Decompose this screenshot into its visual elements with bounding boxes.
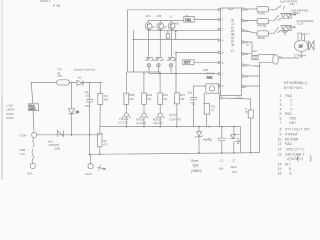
- capacitor C5: [190, 98, 196, 100]
- capacitor small below Q3: [166, 30, 169, 38]
- arrow by ACN: [98, 165, 106, 170]
- node ACL circle: [30, 163, 35, 168]
- svg-text:R3: R3: [104, 94, 108, 98]
- wire pin9 column: [219, 94, 221, 127]
- svg-text:light: light: [193, 164, 199, 168]
- wire transistor top bus: [149, 20, 184, 22]
- svg-text:): ): [310, 156, 312, 163]
- wire motor stubs: [297, 33, 305, 40]
- svg-text:13: 13: [245, 40, 249, 44]
- svg-text:10uF: 10uF: [230, 165, 237, 169]
- svg-text:C3: C3: [85, 90, 89, 94]
- wire inner vertical: [133, 30, 135, 72]
- svg-text:+(2A????): +(2A????): [169, 117, 181, 121]
- motor M1: [295, 40, 309, 51]
- relay box B1: [257, 7, 269, 12]
- svg-text:15: 15: [278, 167, 282, 171]
- svg-text:(HI): (HI): [290, 2, 295, 6]
- svg-text:15V: 15V: [232, 170, 237, 174]
- wire R472 bottom: [99, 147, 101, 155]
- transistor Q1: [145, 23, 154, 30]
- svg-text:211: 211: [163, 97, 168, 101]
- svg-text:1/R2: 1/R2: [289, 117, 296, 121]
- scan edge line left: [1, 0, 3, 180]
- zener pair Z1: [145, 58, 154, 68]
- svg-text:1P1: 1P1: [146, 14, 151, 18]
- wire C1 bottom lead: [221, 141, 223, 153]
- svg-text:+(2.1??): +(2.1??): [118, 121, 128, 125]
- svg-text:PA (B): PA (B): [258, 13, 265, 16]
- svg-text:D9: D9: [103, 139, 107, 143]
- wire bus1 com: [37, 134, 102, 136]
- svg-text:(MID): (MID): [293, 11, 300, 15]
- svg-text:P(Comr: P(Comr: [119, 117, 128, 121]
- svg-text:(?): (?): [211, 108, 214, 112]
- svg-text:1L: 1L: [169, 14, 173, 18]
- svg-text:N1: N1: [78, 76, 82, 80]
- relay box B3: [257, 31, 269, 36]
- svg-text:+(2A.??): +(2A.??): [152, 121, 162, 125]
- wire U2 to pin6: [194, 61, 219, 63]
- svg-text:4: 4: [280, 108, 282, 112]
- svg-text:C?M(w=): C?M(w=): [294, 54, 306, 58]
- svg-text:241: 241: [147, 97, 152, 101]
- svg-text:3: 3: [280, 103, 282, 107]
- svg-text:p?+C: p?+C: [237, 96, 243, 100]
- svg-text:(LO): (LO): [298, 22, 304, 26]
- wire ZD1 bottom lead: [198, 137, 200, 153]
- svg-text:104: 104: [218, 167, 223, 171]
- wire pin14 to box3: [244, 31, 258, 34]
- resistor R col4: [175, 93, 180, 104]
- regulator pill: [273, 55, 278, 64]
- wire Q3 down: [171, 29, 173, 56]
- wire R2b to bus: [206, 114, 208, 127]
- wire regulator bottom loop: [260, 61, 274, 63]
- wire col2 vertical: [143, 74, 145, 93]
- svg-text:RX1: RX1: [207, 76, 213, 80]
- transistor Q2: [157, 23, 166, 30]
- IC U3 body: [221, 8, 242, 96]
- wire R col1 to LED1: [125, 104, 127, 113]
- wire R3 to R472: [99, 104, 102, 133]
- svg-text:R: R: [245, 107, 247, 111]
- wire pin12 5V: [244, 53, 252, 55]
- svg-text:9: 9: [280, 133, 282, 137]
- wire to pin7: [149, 73, 219, 75]
- svg-text:1?L/BRA: 1?L/BRA: [250, 65, 260, 68]
- svg-text:R77: R77: [184, 61, 190, 65]
- svg-text:1P5: 1P5: [157, 14, 162, 18]
- wire motor feed: [278, 57, 299, 59]
- wire to pin4: [134, 39, 219, 41]
- svg-text:2: 2: [280, 98, 282, 102]
- svg-text:0: 0: [291, 108, 293, 112]
- wire pin10R: [244, 75, 260, 77]
- svg-text:RC7: RC7: [180, 93, 186, 97]
- svg-text:R0B: R0B: [129, 93, 134, 97]
- wire pin16 to box1: [244, 8, 258, 10]
- wire LED3 to bus: [159, 117, 161, 126]
- svg-text:(4M): (4M): [203, 68, 209, 72]
- svg-text:R1B: R1B: [147, 93, 152, 97]
- svg-text:6: 6: [289, 167, 291, 171]
- wire right rail: [259, 62, 261, 153]
- resistor R2b: [204, 104, 209, 115]
- IC pin circles right: [242, 8, 244, 88]
- resistor R3: [98, 94, 103, 105]
- wire box2 to triac1: [269, 15, 279, 20]
- svg-text:5: 5: [280, 112, 282, 116]
- svg-text:P?0/INT: P?0/INT: [285, 133, 299, 137]
- svg-text:10: 10: [245, 74, 249, 78]
- svg-text:M1/TMR: M1/TMR: [285, 137, 299, 141]
- wire pin9R: [244, 85, 260, 87]
- fusible resistor pill: [57, 80, 70, 85]
- transistor Q3: [168, 23, 175, 30]
- wire row to pin3: [149, 29, 219, 31]
- svg-text:45V: 45V: [175, 21, 180, 25]
- IC pin numbers right: [245, 7, 249, 89]
- svg-text:OSC1(AAL?: OSC1(AAL?: [285, 153, 304, 157]
- svg-text:M.7: M.7: [285, 163, 291, 167]
- svg-text:V?? U?y I?. IN?: V?? U?y I?. IN?: [285, 128, 310, 132]
- wire R col3 to LED3: [159, 104, 161, 113]
- wire box bottom: [128, 71, 161, 73]
- svg-text:HT46R05A-1: HT46R05A-1: [284, 80, 308, 85]
- wire motor bottom stub: [300, 51, 302, 58]
- svg-text:PB2: PB2: [285, 112, 292, 116]
- svg-text:821: 821: [104, 97, 109, 101]
- svg-text:14: 14: [245, 29, 249, 33]
- svg-text:(?): (?): [245, 110, 248, 114]
- relay box B2: [257, 19, 269, 24]
- svg-text:7: 7: [280, 121, 282, 125]
- svg-text:1/10B: 1/10B: [54, 148, 61, 151]
- svg-text:1.5uF: 1.5uF: [6, 104, 13, 108]
- svg-text:River: River: [191, 159, 199, 163]
- wire U1 to pin2: [194, 19, 218, 21]
- wire pin1 top: [128, 9, 219, 11]
- svg-text:VDD (??.?.): VDD (??.?.): [286, 148, 304, 152]
- LED D2: [140, 113, 148, 118]
- wire C2a column: [193, 86, 195, 127]
- svg-text:?R: ?R: [279, 57, 282, 60]
- wire bus2 bottom: [89, 153, 259, 155]
- fan blades: [307, 40, 314, 50]
- wire stub Q3 top: [171, 21, 173, 23]
- resistor R472: [98, 133, 103, 147]
- zener pair Z2: [155, 58, 164, 68]
- svg-text:PA3: PA3: [286, 94, 292, 98]
- svg-text:Scopp& 1N(4,mv): Scopp& 1N(4,mv): [74, 67, 95, 71]
- wire cap to regulator: [258, 54, 275, 57]
- svg-text:8: 8: [280, 128, 282, 132]
- resistor R26: [248, 110, 253, 118]
- svg-text:9/AVF: 9/AVF: [6, 116, 14, 120]
- wire box3 to triac2: [269, 28, 279, 34]
- wire Q1 down: [148, 30, 150, 57]
- svg-text:2/B?: 2/B?: [289, 121, 296, 125]
- wire R3 top lead: [99, 83, 101, 94]
- node COM circle: [32, 132, 37, 137]
- wire R26 bottom: [250, 118, 252, 153]
- svg-text:16: 16: [278, 172, 282, 176]
- wire C7 top lead: [233, 127, 235, 134]
- wire C7 bottom lead: [233, 142, 235, 153]
- capacitor C1: [218, 138, 227, 141]
- wire fuse to com: [33, 111, 34, 133]
- wire bus3: [100, 127, 241, 153]
- resistor R col3: [158, 93, 163, 105]
- svg-text:HT46R05A-1: HT46R05A-1: [230, 19, 235, 53]
- wire box left edge: [127, 10, 129, 72]
- wire to pin5: [176, 52, 219, 54]
- wire ACN stub: [90, 154, 92, 163]
- svg-text:5?1kA: 5?1kA: [6, 112, 14, 116]
- svg-text:ACL: ACL: [27, 171, 33, 175]
- svg-text:472: 472: [103, 143, 108, 147]
- svg-text:C7: C7: [232, 158, 236, 162]
- wire col4 vertical: [175, 53, 177, 93]
- triac T2: [278, 25, 292, 33]
- LED D3: [156, 113, 164, 118]
- IC pin circles left: [218, 8, 220, 87]
- svg-text:45V: 45V: [85, 104, 90, 108]
- diode D2: [68, 109, 74, 114]
- svg-text:C2a: C2a: [187, 91, 192, 95]
- svg-text:16: 16: [245, 7, 249, 11]
- wire LED1 to bus: [125, 117, 127, 127]
- svg-text:NTC E: NTC E: [206, 72, 214, 76]
- svg-text:(1BB%): (1BB%): [191, 169, 202, 173]
- wire down to fuse: [31, 83, 33, 104]
- svg-text:10: 10: [278, 137, 282, 141]
- svg-text:70a: 70a: [190, 101, 195, 105]
- node pin9 below IC: [220, 97, 222, 99]
- svg-text:11: 11: [245, 63, 248, 67]
- svg-text:P 1K: P 1K: [53, 4, 61, 8]
- wire LED2 to bus: [143, 117, 145, 126]
- svg-text:F2b: F2b: [211, 105, 216, 109]
- capacitor C3: [87, 100, 93, 102]
- wire Z3 down: [170, 64, 172, 74]
- wire R col2 to LED2: [143, 104, 145, 113]
- wire pin11 stub: [244, 64, 251, 66]
- node ACN circle: [88, 163, 93, 168]
- label ZD1 scribble: [204, 138, 212, 140]
- wire pin15 to box2: [244, 20, 258, 22]
- wire crystal to R2b: [203, 93, 205, 103]
- zener ZD1: [195, 131, 202, 137]
- wire Z1 down: [148, 64, 150, 74]
- svg-text:COM: COM: [20, 133, 28, 137]
- svg-text:R/W (B): R/W (B): [257, 25, 266, 28]
- svg-text:1: 1: [280, 94, 282, 98]
- diode N1: [77, 80, 83, 85]
- triac T1: [278, 13, 292, 21]
- svg-text:11: 11: [278, 142, 282, 146]
- boxed label U1: [184, 16, 194, 22]
- pin list: [278, 94, 312, 176]
- wire col3 vertical: [159, 74, 161, 93]
- wire col1 vertical: [125, 72, 127, 93]
- zener pair Z3: [167, 58, 176, 68]
- wire pin13: [244, 42, 253, 54]
- svg-text:2: 2: [290, 98, 292, 102]
- svg-text:242: 242: [180, 97, 185, 101]
- wire diode column D2: [71, 83, 73, 135]
- wire ZD1 top lead: [198, 127, 200, 132]
- wire junction drop: [175, 31, 177, 39]
- switch SAB squiggle: [32, 138, 34, 163]
- svg-text:8?? B?? M?L: 8?? B?? M?L: [284, 86, 303, 90]
- capacitor C10: [252, 55, 258, 59]
- svg-text:250V: 250V: [29, 107, 35, 111]
- svg-text:ACN: ACN: [85, 172, 91, 176]
- wire pin9 node to R26: [222, 98, 251, 110]
- svg-text:6: 6: [290, 172, 292, 176]
- svg-text:222: 222: [85, 94, 90, 98]
- svg-text:15: 15: [245, 19, 249, 23]
- resistor R col2: [142, 93, 147, 105]
- svg-text:ZB (B): ZB (B): [258, 37, 265, 40]
- capacitor C7 electrolytic: [230, 134, 240, 144]
- boxed label RX1: [207, 76, 213, 80]
- svg-text:1N: 1N: [76, 111, 79, 114]
- svg-text:24Z: 24Z: [129, 97, 134, 101]
- wire box1 to HI: [269, 6, 281, 10]
- svg-text:LPM3Y: LPM3Y: [6, 108, 15, 112]
- wire tick HI: [283, 7, 284, 9]
- wire Q2 down: [159, 30, 161, 57]
- wire pin8 long: [194, 85, 219, 87]
- svg-text:12: 12: [278, 148, 282, 152]
- svg-text:U11: U11: [185, 18, 191, 22]
- svg-text:7(277)?: 7(277)?: [169, 113, 178, 117]
- svg-text:R14: R14: [163, 93, 168, 97]
- svg-text:LPDINTR: LPDINTR: [48, 144, 59, 147]
- svg-text:RA2: RA2: [285, 142, 292, 146]
- wire stub Q2 top: [159, 21, 161, 23]
- wire Z2 down: [158, 64, 160, 74]
- boxed label U2: [183, 60, 194, 65]
- svg-text:12: 12: [245, 52, 249, 56]
- svg-text:1: 1: [290, 103, 292, 107]
- ground under T2: [282, 30, 288, 34]
- resistor R col1: [124, 93, 129, 104]
- svg-text:M: M: [299, 44, 303, 49]
- scan edge darker lower: [1, 96, 3, 180]
- svg-text:C1: C1: [220, 158, 224, 162]
- wire C3 top lead: [89, 83, 91, 100]
- LED D1: [122, 113, 130, 118]
- wire stub Q1 top: [148, 21, 150, 23]
- svg-text:14: 14: [278, 163, 282, 167]
- svg-text:+(L.LPH): +(L.LPH): [136, 121, 147, 125]
- svg-text:2022.8.4: 2022.8.4: [40, 0, 51, 3]
- svg-text:2(?A?/R?): 2(?A?/R?): [287, 157, 303, 161]
- svg-text:71V: 71V: [20, 152, 25, 156]
- wire triac1 arrow: [290, 14, 296, 16]
- svg-text:6: 6: [280, 117, 282, 121]
- wire C1 top lead: [221, 127, 223, 139]
- wire triac2 arrow: [290, 26, 295, 28]
- svg-text:V7B: V7B: [57, 74, 62, 78]
- wire ac live: [31, 82, 102, 84]
- wire col4 to bus: [176, 104, 178, 127]
- svg-text:13: 13: [278, 153, 282, 157]
- IC pin numbers left: [222, 8, 224, 88]
- thermal fuse N symbol: [58, 131, 64, 137]
- wire C3 bottom lead: [89, 102, 91, 154]
- fuse F1 box: [28, 104, 38, 111]
- crystal RX1: [206, 84, 219, 93]
- svg-text:+5V: +5V: [252, 49, 257, 53]
